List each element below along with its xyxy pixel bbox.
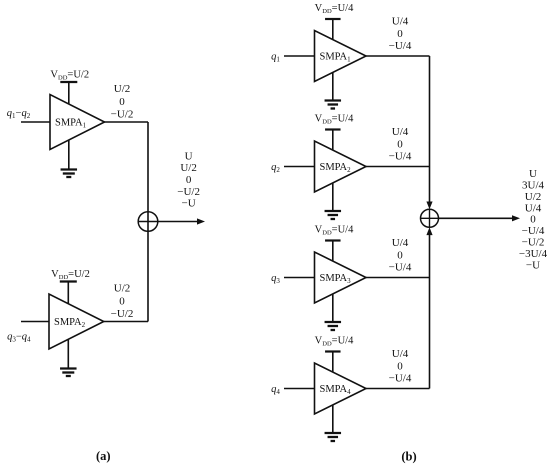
svg-text:VDD=U/4: VDD=U/4 <box>315 336 354 348</box>
svg-text:SMPA1: SMPA1 <box>55 118 87 130</box>
svg-text:−U/4: −U/4 <box>389 262 412 274</box>
svg-text:0: 0 <box>119 296 125 308</box>
svg-text:0: 0 <box>119 96 125 108</box>
svg-text:(b): (b) <box>401 450 416 464</box>
svg-text:VDD=U/4: VDD=U/4 <box>315 225 354 237</box>
svg-text:U: U <box>185 150 193 162</box>
svg-text:−U/2: −U/2 <box>177 186 200 198</box>
svg-text:U/2: U/2 <box>180 162 197 174</box>
svg-text:−U/4: −U/4 <box>389 40 412 52</box>
svg-text:−U/4: −U/4 <box>389 151 412 163</box>
svg-text:−U/2: −U/2 <box>111 109 134 121</box>
svg-text:−U/2: −U/2 <box>111 308 134 320</box>
svg-text:U/4: U/4 <box>392 237 409 249</box>
svg-text:0: 0 <box>530 214 536 226</box>
svg-text:U/4: U/4 <box>392 348 409 360</box>
svg-text:U/4: U/4 <box>525 202 542 214</box>
svg-text:VDD=U/4: VDD=U/4 <box>315 3 354 15</box>
svg-text:VDD=U/2: VDD=U/2 <box>51 269 90 281</box>
svg-text:0: 0 <box>186 174 192 186</box>
svg-text:0: 0 <box>397 250 403 262</box>
svg-text:−3U/4: −3U/4 <box>519 248 548 260</box>
svg-text:VDD=U/4: VDD=U/4 <box>315 114 354 126</box>
svg-text:U/4: U/4 <box>392 16 409 28</box>
svg-text:U/2: U/2 <box>114 283 131 295</box>
svg-text:−U: −U <box>182 198 196 210</box>
svg-text:0: 0 <box>397 361 403 373</box>
svg-text:SMPA2: SMPA2 <box>54 317 86 329</box>
svg-text:SMPA3: SMPA3 <box>320 273 352 285</box>
svg-text:U/2: U/2 <box>114 83 131 95</box>
svg-text:−U/2: −U/2 <box>522 237 545 249</box>
svg-text:−U/4: −U/4 <box>389 373 412 385</box>
svg-text:U/2: U/2 <box>525 191 542 203</box>
svg-text:(a): (a) <box>96 449 111 463</box>
svg-text:U/4: U/4 <box>392 126 409 138</box>
svg-text:−U/4: −U/4 <box>522 225 545 237</box>
svg-text:U: U <box>529 168 537 180</box>
svg-text:0: 0 <box>397 139 403 151</box>
svg-text:3U/4: 3U/4 <box>522 180 545 192</box>
svg-text:VDD=U/2: VDD=U/2 <box>50 70 89 82</box>
svg-text:−U: −U <box>526 259 540 271</box>
svg-text:SMPA1: SMPA1 <box>320 52 352 64</box>
svg-text:SMPA4: SMPA4 <box>320 384 352 396</box>
svg-text:SMPA2: SMPA2 <box>320 162 352 174</box>
svg-text:0: 0 <box>397 28 403 40</box>
